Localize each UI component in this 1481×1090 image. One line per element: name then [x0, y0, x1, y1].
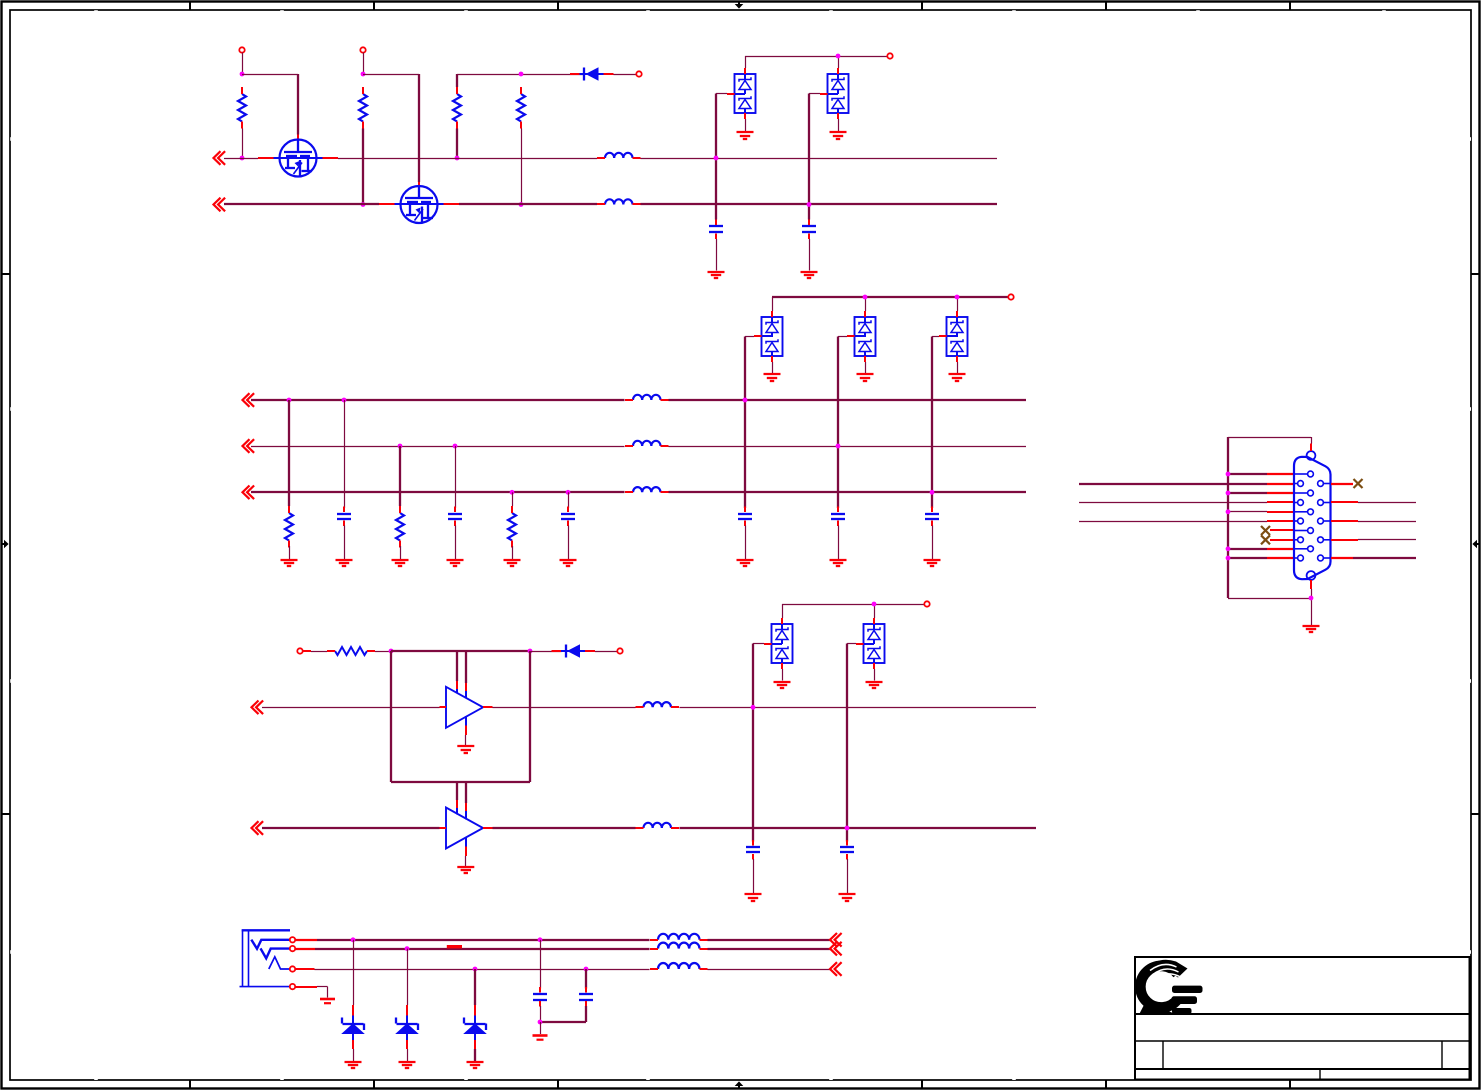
capacitor C4 — [448, 507, 462, 527]
wire db15 shield bottom — [1310, 580, 1313, 625]
wire U1 pin3 — [716, 93, 727, 95]
capacitor C5 — [561, 507, 575, 527]
mosfet Q1 — [258, 140, 338, 177]
wire rail2 — [772, 297, 1009, 311]
ground C2 — [801, 272, 818, 278]
wire C10 gnd — [847, 859, 849, 894]
border center arrow top — [735, 2, 744, 9]
junction lineA-C3 — [342, 398, 347, 403]
ground U6 — [457, 746, 474, 753]
wire P2 drop — [363, 53, 365, 75]
ground C5 — [560, 560, 577, 566]
capacitor C7 — [831, 507, 845, 527]
audio jack J1 body — [240, 930, 291, 988]
junction lineC-R7 — [510, 490, 515, 495]
tvs array U8 — [764, 618, 793, 669]
wire U1 gnd — [745, 119, 747, 132]
ground C8 — [924, 560, 941, 566]
ground U9 — [866, 682, 883, 688]
tvs array U4 — [847, 311, 876, 362]
border center arrow left — [2, 540, 9, 549]
wire D2 feed — [530, 651, 562, 653]
resistor R5 — [285, 506, 293, 548]
terminal P5 — [1008, 294, 1013, 299]
junction lineC-C5 — [566, 490, 571, 495]
no-connect X3 — [1354, 479, 1363, 488]
capacitor C10 — [840, 840, 854, 860]
wire U4 branch — [837, 337, 839, 509]
terminal P8 — [924, 601, 929, 606]
wire db15 feed row4 — [1079, 501, 1295, 504]
connector J2 mounting hole bottom — [1307, 571, 1316, 580]
wire C4 gnd — [455, 526, 457, 560]
connector J2 pin right 3 — [1318, 518, 1331, 524]
ground U3 — [764, 374, 781, 381]
wire D5 gnd — [474, 1049, 476, 1061]
connector J2 pin left 3 — [1295, 518, 1303, 524]
resistor R4 — [517, 87, 525, 129]
zener D4 — [396, 1005, 418, 1049]
wire db15 bracket — [1228, 437, 1311, 599]
wire U3 branch — [744, 337, 746, 509]
wire U9 pin3 — [847, 643, 856, 645]
diode D2 — [552, 644, 596, 658]
port arrow lineC — [243, 486, 255, 500]
terminal J1 pin4 — [290, 984, 295, 989]
zener D5 — [464, 1005, 486, 1049]
inductor L8 — [650, 934, 708, 940]
capacitor C2 — [802, 220, 816, 240]
wire U1 branch — [715, 94, 717, 220]
junction line1-C11 — [538, 937, 543, 942]
wire jack line2 — [295, 948, 830, 950]
port arrow jack line2 — [830, 942, 842, 956]
wire db15 row7 stub — [1270, 529, 1295, 531]
wire C6 gnd — [745, 526, 747, 560]
junction bracket row3 — [1226, 491, 1231, 496]
junction cap link — [538, 1020, 543, 1025]
wire lineB — [251, 446, 1026, 448]
wire db15 bracket row5 — [1228, 511, 1295, 514]
ground U4 — [857, 374, 874, 381]
junction bracket row9 — [1226, 546, 1231, 551]
wire D2 to P7 — [595, 651, 618, 653]
wire U8 gnd — [782, 669, 784, 681]
terminal J1 pin2 — [290, 946, 295, 951]
junction lineB-R6 — [398, 444, 403, 449]
junction U3-lineA — [743, 398, 748, 403]
junction line3-D5 — [473, 967, 478, 972]
wire R1 to line1 — [242, 129, 244, 159]
ground D3 — [345, 1062, 362, 1068]
terminal P3 — [636, 71, 641, 76]
junction bracket row5 — [1226, 509, 1231, 514]
wire P1 drop — [242, 53, 244, 75]
inductor L5 — [625, 487, 669, 492]
terminal P7 — [617, 648, 622, 653]
tvs array U1 — [727, 68, 756, 119]
wire U6 vcc pins — [457, 651, 466, 699]
border center arrow right — [1472, 540, 1479, 549]
zener D3 — [342, 1005, 364, 1049]
connector J2 pin middle 5 — [1295, 546, 1313, 552]
wire C5 gnd — [568, 526, 570, 560]
wire U2 gnd — [838, 119, 840, 132]
no-connect X2 — [1261, 535, 1270, 544]
border center arrow bottom — [735, 1081, 744, 1088]
wire U8 branch — [752, 644, 754, 842]
wire lineC — [251, 491, 1026, 493]
wire jack sleeve — [295, 987, 328, 998]
terminal J1 pin1 — [290, 937, 295, 942]
wire db15 bracket row10 — [1228, 557, 1295, 559]
ground C6 — [737, 560, 754, 566]
terminal J1 pin3 — [290, 966, 295, 971]
connector J2 pin middle 4 — [1295, 528, 1313, 534]
wire U2 branch — [808, 94, 810, 220]
wire U5 pin3 — [932, 336, 939, 338]
wire D4 drop — [407, 949, 409, 1005]
ground U5 — [949, 374, 966, 381]
wire A1 to M1 drain — [242, 74, 298, 140]
junction node B2 — [528, 649, 533, 654]
ground caps — [533, 1036, 548, 1040]
tvs array U9 — [856, 618, 885, 669]
wire db15 bracket row3 — [1228, 492, 1295, 494]
ground D4 — [399, 1062, 416, 1068]
wire db15 right row2 — [1331, 483, 1353, 485]
wire C9 gnd — [753, 859, 755, 894]
junction lineB-C4 — [453, 444, 458, 449]
wire U5 gnd — [957, 362, 959, 374]
wire line4 right — [493, 827, 1037, 829]
capacitor C9 — [746, 840, 760, 860]
wire supply top — [391, 650, 530, 652]
port arrow line1 — [214, 151, 226, 165]
capacitor C8 — [925, 507, 939, 527]
junction U5-lineC — [930, 490, 935, 495]
capacitor C1 — [709, 220, 723, 240]
junction rail2-U5 — [955, 295, 960, 300]
wire cap link — [540, 1006, 586, 1022]
border zone dividers right — [1471, 274, 1479, 814]
port arrow opamp line2 — [252, 821, 264, 835]
junction node A1 — [240, 72, 245, 77]
wire R7 drop — [512, 492, 514, 506]
wire caps gnd — [540, 1022, 542, 1034]
wire U5 branch — [931, 337, 933, 509]
resistor R7 — [508, 506, 516, 548]
border zone dividers left — [3, 274, 11, 814]
junction R4-line2 — [519, 202, 524, 207]
wire D1 to P3 — [614, 74, 637, 76]
wire top feed — [457, 74, 583, 76]
port arrow line2 — [214, 198, 226, 212]
connector J2 pin middle 2 — [1295, 490, 1313, 496]
junction line1-D3 — [351, 937, 356, 942]
wire U8 pin3 — [753, 643, 764, 645]
connector J2 pin middle 3 — [1295, 509, 1313, 515]
junction U2-line2 — [807, 202, 812, 207]
inductor L1 — [597, 153, 641, 158]
ground C1 — [708, 272, 725, 278]
connector J2 pin right 2 — [1318, 500, 1331, 506]
junction R1-line1 — [240, 156, 245, 161]
ferrite bead FB1 — [447, 945, 462, 948]
wire line1 — [224, 158, 997, 160]
ground U2 — [830, 132, 847, 139]
ground R5 — [281, 560, 298, 566]
wire db15 row8 stub — [1270, 539, 1295, 541]
wire C11 drop — [540, 940, 542, 989]
wire D3 gnd — [353, 1049, 355, 1061]
wire A2 to M2 drain — [363, 74, 419, 188]
port arrow lineA — [243, 393, 255, 407]
wire line3 left — [262, 707, 440, 709]
ground U7 — [457, 867, 474, 873]
junction rail1 — [836, 54, 841, 59]
junction U1-line1 — [714, 156, 719, 161]
wire C3 gnd — [344, 526, 346, 560]
inductor L3 — [625, 395, 669, 400]
wire U7 gnd pin — [465, 837, 468, 866]
capacitor C3 — [337, 507, 351, 527]
wire line2 left — [224, 203, 379, 205]
wire db15 feed row2 — [1079, 483, 1295, 485]
wire C5 drop — [568, 492, 570, 508]
connector J2 pin right 5 — [1318, 555, 1331, 561]
junction bracket row10 — [1226, 556, 1231, 561]
wire R5 drop — [288, 400, 290, 506]
wire C1 gnd — [716, 239, 718, 271]
wire U9 gnd — [874, 669, 876, 681]
wire lineA — [251, 399, 1026, 401]
wire C7 gnd — [838, 526, 840, 560]
wire D4 gnd — [407, 1049, 409, 1061]
ground J2 shield — [1303, 626, 1320, 632]
ground D5 — [467, 1062, 484, 1068]
capacitor C12 — [579, 987, 593, 1007]
junction U4-lineB — [836, 444, 841, 449]
wire jack line1 — [295, 939, 830, 941]
resistor R2 — [359, 87, 367, 129]
diode D1 — [570, 67, 614, 81]
resistor R1 — [238, 87, 246, 129]
wire R8 to node B1 — [375, 651, 391, 653]
inductor L6 — [636, 702, 680, 707]
wire supply box — [391, 651, 530, 782]
tvs array U2 — [820, 68, 849, 119]
ground U1 — [737, 132, 754, 139]
wire C2 gnd — [809, 239, 811, 271]
wire line4 left — [262, 827, 440, 829]
audio jack J1 tip contact — [251, 940, 290, 949]
port arrow lineB — [243, 439, 255, 453]
wire db15 right row4 — [1331, 501, 1416, 504]
terminal P4 — [887, 53, 892, 58]
wire R6 gnd — [400, 546, 402, 559]
title block frame — [1135, 957, 1470, 1080]
connector J2 mounting hole top — [1307, 451, 1316, 460]
wire U4 gnd — [865, 362, 867, 374]
wire C12 drop — [585, 969, 587, 989]
ground C7 — [830, 560, 847, 566]
wire db15 bracket row9 — [1228, 548, 1295, 550]
inductor L2 — [597, 199, 641, 204]
ground C10 — [839, 894, 856, 901]
wire rail1 — [745, 56, 888, 74]
wire U7 vcc pins — [457, 782, 466, 820]
tvs array U3 — [754, 311, 783, 362]
wire P6 to R8 — [303, 650, 328, 653]
resistor R8 — [327, 647, 375, 655]
inductor L4 — [625, 441, 669, 446]
mosfet Q2 — [379, 186, 459, 223]
resistor R3 — [453, 87, 461, 129]
connector J2 pin right 4 — [1318, 537, 1331, 543]
wire D3 drop — [353, 940, 355, 1005]
junction U8-line3 — [751, 705, 756, 710]
junction rail3 — [872, 602, 877, 607]
wire line3 right — [493, 707, 1037, 709]
junction U9-line4 — [845, 826, 850, 831]
junction node A3 — [519, 72, 524, 77]
wire R3 to line1 — [456, 129, 458, 159]
wire R4 to line2 — [521, 129, 523, 205]
junction R2-line2 — [361, 202, 366, 207]
wire R5 gnd — [289, 546, 291, 559]
ground C4 — [447, 560, 464, 566]
wire db15 right row8 — [1331, 539, 1416, 542]
ground C9 — [745, 894, 762, 901]
capacitor C11 — [533, 987, 547, 1007]
wire C8 gnd — [932, 526, 934, 560]
port arrow jack line3 — [830, 962, 842, 976]
wire R2 to line2 — [362, 129, 364, 204]
audio jack J1 ring contact — [261, 948, 291, 958]
ground jack sleeve — [320, 999, 335, 1003]
inductor L10 — [650, 963, 708, 969]
company logo — [1140, 960, 1203, 1014]
wire db15 right row6 — [1331, 520, 1416, 523]
ground C3 — [336, 560, 353, 566]
junction line2-D4 — [405, 946, 410, 951]
wire C4 drop — [455, 446, 457, 508]
connector J2 pin right 1 — [1318, 481, 1331, 487]
audio jack J1 ring2 contact — [269, 957, 290, 969]
wire line2 right — [459, 203, 997, 205]
junction lineA-R5 — [287, 398, 292, 403]
junction line3-C12 — [584, 967, 589, 972]
connector J2 pin left 5 — [1295, 555, 1303, 561]
wire jack line3 — [295, 968, 830, 971]
ground U8 — [774, 682, 791, 688]
resistor R6 — [396, 506, 404, 548]
connector J2 pin left 4 — [1295, 537, 1303, 543]
terminal P6 — [297, 648, 302, 653]
border zone dividers bottom — [190, 1080, 1290, 1088]
op-amp U6 — [440, 687, 493, 728]
port arrow jack line1 — [830, 933, 842, 947]
no-connect X1 — [1261, 526, 1270, 535]
wire R6 drop — [399, 446, 401, 506]
wire db15 feed row6 — [1079, 520, 1295, 523]
wire U6 gnd pin — [465, 716, 468, 746]
wire U9 branch — [846, 644, 848, 842]
connector J2 pin middle 1 — [1295, 471, 1313, 477]
ground R6 — [392, 560, 409, 566]
connector J2 pin left 1 — [1295, 481, 1303, 487]
op-amp U7 — [440, 808, 493, 849]
wire db15 shield top — [1310, 437, 1313, 451]
junction db15 shield — [1309, 596, 1314, 601]
wire D5 drop — [474, 969, 476, 1005]
wire R3 top — [456, 74, 458, 87]
terminal P1 — [239, 47, 244, 52]
wire R7 gnd — [512, 546, 514, 559]
junction node A2 — [361, 72, 366, 77]
wire U3 pin3 — [745, 336, 754, 338]
connector J2 DB15 body — [1294, 457, 1331, 579]
wire U4 pin3 — [838, 336, 847, 338]
junction node B1 — [389, 649, 394, 654]
junction bracket row1 — [1226, 472, 1231, 477]
wire db15 bracket row1 — [1228, 473, 1295, 475]
tvs array U5 — [939, 311, 968, 362]
ground R7 — [504, 560, 521, 566]
inductor L7 — [636, 823, 680, 828]
port arrow opamp line1 — [252, 701, 264, 715]
wire U2 pin3 — [809, 93, 820, 95]
border zone dividers top — [190, 3, 1290, 11]
capacitor C6 — [738, 507, 752, 527]
junction rail2-U4 — [863, 295, 868, 300]
terminal P2 — [360, 47, 365, 52]
junction R3-line1 — [455, 156, 460, 161]
wire C3 drop — [344, 400, 346, 508]
inductor L9 — [650, 943, 708, 949]
wire rail3 — [782, 604, 925, 618]
wire db15 right row10 — [1331, 557, 1416, 559]
wire U3 gnd — [772, 362, 774, 374]
connector J2 pin left 2 — [1295, 500, 1303, 506]
